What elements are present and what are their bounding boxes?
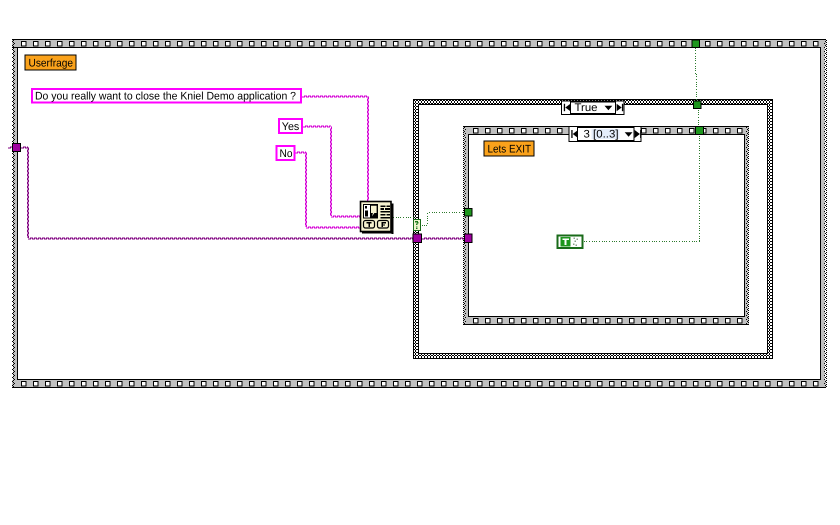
tunnel: purple on sequence left rail bbox=[464, 234, 473, 244]
tunnel: purple on outer frame left rail bbox=[12, 143, 21, 152]
outer flat-sequence frame left rail bbox=[12, 40, 18, 387]
label Lets EXIT bbox=[484, 141, 534, 156]
sequence frame rail zigzag overlays bbox=[463, 127, 749, 324]
outer flat-sequence frame top band bbox=[12, 39, 826, 48]
string constant: No bbox=[277, 146, 295, 160]
case selector label True bbox=[562, 101, 625, 115]
stacked sequence frame right rail bbox=[744, 127, 749, 324]
wire: case tunnel to outer frame tunnel (green dotted) bbox=[695, 48, 697, 100]
wire: sequence tunnel to case tunnel (green dotted) bbox=[698, 110, 699, 125]
stacked sequence frame top band bbox=[463, 126, 749, 135]
wire: green dotted from selector to sequence left tunnel bbox=[422, 212, 465, 226]
label Userfrage bbox=[25, 55, 76, 70]
wire: message string constant to dialog (pink zigzag) bbox=[302, 96, 369, 202]
case structure border bbox=[413, 99, 773, 359]
svg-text:Yes: Yes bbox=[282, 121, 300, 133]
tunnel: green on sequence left rail bbox=[464, 208, 473, 217]
tunnel: purple on case left border bbox=[413, 234, 423, 244]
stacked sequence frame left rail bbox=[463, 127, 469, 324]
stacked sequence frame bottom band bbox=[463, 316, 749, 325]
wire: purple string from left tunnel along bottom to case and sequence bbox=[8, 147, 464, 240]
svg-text:Userfrage: Userfrage bbox=[29, 58, 74, 70]
tunnel: green on case top border bbox=[693, 101, 702, 110]
boolean constant True bbox=[558, 236, 583, 249]
wire: boolean T constant to sequence top tunnel (green dotted) bbox=[584, 136, 700, 242]
two button dialog function bbox=[361, 202, 394, 235]
case selector ? terminal bbox=[413, 219, 421, 231]
svg-text:Lets EXIT: Lets EXIT bbox=[488, 144, 532, 156]
outer flat-sequence frame right rail bbox=[820, 40, 827, 387]
svg-text:No: No bbox=[280, 148, 293, 160]
outer flat-sequence frame bottom band bbox=[12, 379, 826, 388]
svg-text:3 [0..3]: 3 [0..3] bbox=[584, 129, 619, 141]
wire: Yes string constant to dialog (pink zigzag) bbox=[303, 126, 360, 218]
sequence selector label 3 [0..3] bbox=[569, 127, 641, 142]
svg-text:True: True bbox=[575, 102, 598, 114]
tunnel: green on sequence top band bbox=[695, 126, 704, 135]
outer frame rail zigzag overlays bbox=[12, 40, 827, 387]
tunnel: green on outer frame top band bbox=[692, 40, 701, 49]
string constant: dialog message bbox=[32, 89, 301, 103]
wire: No string constant to dialog (pink zigzag) bbox=[295, 152, 360, 229]
wire: dialog boolean result to case selector terminal (green dotted) bbox=[393, 217, 414, 218]
svg-text:Do you really want to close th: Do you really want to close the Kniel De… bbox=[35, 91, 296, 103]
string constant: Yes bbox=[279, 119, 302, 133]
